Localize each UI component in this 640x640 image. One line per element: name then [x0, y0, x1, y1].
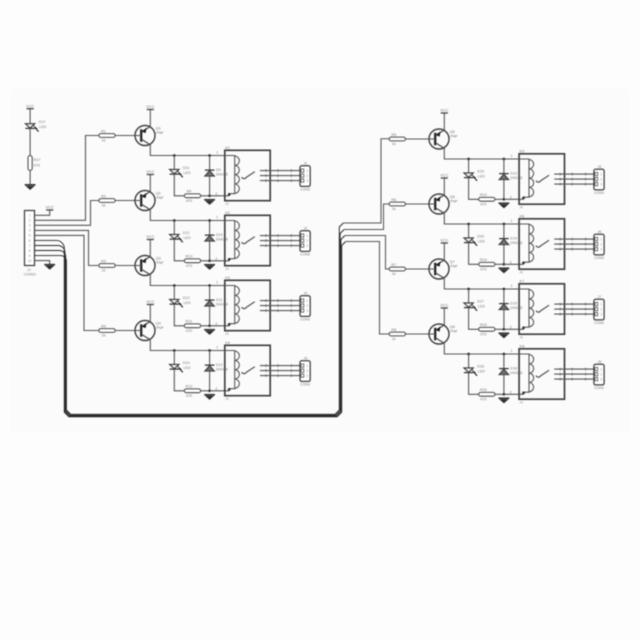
ground ch6 — [499, 268, 510, 273]
ground ch3 — [204, 330, 215, 335]
svg-text:Q4: Q4 — [156, 321, 162, 326]
transistor Q6 — [429, 194, 458, 214]
resistor R15 470 — [479, 323, 495, 336]
wire P1 pin6 bus segment to fan — [35, 240, 346, 416]
svg-text:1: 1 — [511, 219, 513, 223]
svg-text:2: 2 — [306, 369, 308, 373]
node rail-LED junction ch3 — [173, 284, 176, 287]
svg-text:PNP: PNP — [156, 261, 164, 265]
svg-text:470: 470 — [186, 264, 192, 268]
resistor R8 1k — [389, 328, 405, 341]
transistor Q4 — [135, 321, 164, 341]
wire R7 to Q7 base — [405, 268, 429, 270]
resistor R16 470 — [479, 388, 495, 401]
svg-text:10: 10 — [27, 268, 31, 272]
relay K1 coil — [234, 156, 236, 193]
svg-text:470: 470 — [34, 163, 40, 167]
resistor R6 1k — [389, 198, 405, 211]
svg-text:Q5: Q5 — [450, 129, 455, 134]
svg-text:VCC: VCC — [146, 234, 154, 239]
svg-text:R11: R11 — [186, 320, 193, 324]
pin tick marks contact 1 ch7 — [559, 303, 561, 306]
node rail-LED junction ch4 — [173, 349, 176, 352]
svg-text:VCC: VCC — [440, 173, 448, 178]
node rail-diode junction ch1 — [208, 154, 211, 157]
LED D11 — [170, 166, 191, 178]
pin tick marks contact 3 ch7 — [559, 313, 561, 316]
svg-text:LED: LED — [478, 174, 486, 178]
wire relay K8 contact 2 to J8 — [554, 373, 594, 375]
svg-text:R12: R12 — [186, 385, 193, 389]
svg-text:1: 1 — [216, 150, 218, 154]
svg-text:1k: 1k — [392, 337, 396, 341]
wire rail to diode D15 — [503, 289, 505, 304]
svg-text:LED: LED — [478, 369, 486, 373]
svg-text:J5: J5 — [597, 165, 601, 169]
node rail-diode junction ch8 — [503, 353, 506, 356]
power VCC indicator — [26, 103, 34, 108]
wire relay K6 contact 1 to J6 — [554, 238, 594, 240]
wire LED D17 to R17 — [29, 128, 31, 156]
wire fan to channel5 riser — [343, 139, 389, 223]
wire relay K8 contact 1 to J8 — [554, 368, 594, 370]
svg-text:D12: D12 — [216, 363, 223, 367]
wire R8 to Q8 base — [405, 333, 429, 335]
wire R11 to ground rail ch3 — [201, 325, 210, 327]
svg-text:1: 1 — [511, 284, 513, 288]
relay K2 switch — [242, 237, 255, 244]
svg-text:R10: R10 — [186, 255, 193, 259]
LED D12 — [170, 231, 191, 243]
wire R2 to Q2 base — [115, 200, 135, 202]
relay K5 box — [519, 148, 564, 209]
relay K5 coil-bottom junction — [522, 197, 525, 200]
relay K8 coil — [528, 355, 530, 392]
svg-text:1: 1 — [600, 302, 602, 306]
wire Q1 emitter to VCC — [149, 110, 151, 127]
svg-text:1: 1 — [306, 364, 308, 368]
wire R4 to Q4 base — [115, 330, 135, 332]
LED D18 — [464, 364, 485, 376]
relay K8 switch — [536, 370, 549, 377]
wire Q5 emitter to VCC — [443, 113, 445, 130]
svg-text:D14: D14 — [510, 237, 517, 241]
connector J7 — [594, 295, 604, 325]
svg-text:1: 1 — [511, 154, 513, 158]
wire fan to channel7 riser — [345, 236, 389, 270]
wire relay K2 contact 3 to J2 — [260, 245, 300, 247]
svg-text:R15: R15 — [480, 323, 487, 327]
relay K1 coil-bottom junction — [228, 193, 231, 196]
wire diode D13 to ground rail — [503, 180, 505, 200]
pin tick marks contact 3 ch3 — [265, 309, 267, 312]
wire ground rail to relay K8 pin2 — [504, 393, 524, 395]
wire Q7 collector to relay rail — [444, 278, 519, 289]
diode D16 1N4148 — [499, 367, 522, 376]
wire relay K5 contact 1 to J5 — [554, 173, 594, 175]
resistor R11 470 — [184, 320, 200, 333]
svg-text:D12: D12 — [183, 231, 190, 235]
wire relay K6 contact 2 to J6 — [554, 243, 594, 245]
svg-text:Q1: Q1 — [156, 126, 161, 131]
wire relay K8 contact 3 to J8 — [554, 378, 594, 380]
pin tick marks contact 3 ch5 — [559, 183, 561, 186]
svg-text:2: 2 — [600, 242, 602, 246]
node ground-rail junction ch1 — [208, 194, 211, 197]
relay K1 box — [225, 145, 270, 206]
svg-text:1N4148: 1N4148 — [510, 241, 522, 245]
svg-text:1: 1 — [216, 280, 218, 284]
svg-text:K2: K2 — [225, 210, 230, 215]
wire P1 pin7 bus segment to fan — [35, 236, 345, 417]
svg-text:PNP: PNP — [156, 196, 164, 200]
node rail-diode junction ch6 — [503, 223, 506, 226]
pin tick marks contact 1 ch2 — [265, 234, 267, 237]
svg-text:1k: 1k — [101, 139, 105, 143]
svg-text:J3: J3 — [303, 291, 307, 295]
svg-text:PNP: PNP — [450, 264, 458, 268]
relay K3 coil-bottom junction — [228, 323, 231, 326]
relay K3 coil — [234, 286, 236, 323]
connector J6 — [594, 230, 604, 260]
svg-text:R4: R4 — [101, 324, 106, 328]
relay K6 box — [519, 213, 564, 274]
svg-text:PNP: PNP — [450, 329, 458, 333]
node ground-rail junction ch5 — [503, 198, 506, 201]
power VCC Q1 — [146, 104, 154, 109]
resistor R10 470 — [184, 255, 200, 268]
relay K2 coil-bottom junction — [228, 258, 231, 261]
wire rail to LED D18 — [468, 354, 470, 368]
svg-text:CON10: CON10 — [24, 273, 36, 277]
connector J4 — [300, 356, 310, 386]
pin tick marks contact 1 ch3 — [265, 299, 267, 302]
svg-text:CON3: CON3 — [594, 256, 604, 260]
wire LED D18 to R16 — [469, 373, 479, 395]
relay K3 switch — [242, 302, 255, 309]
svg-text:3: 3 — [306, 309, 308, 313]
svg-text:3: 3 — [306, 374, 308, 378]
wire Q2 collector to relay rail — [150, 210, 225, 221]
wire LED D15 to R13 — [469, 178, 479, 200]
wire R10 to ground rail ch2 — [201, 260, 210, 262]
wire rail to LED D15 — [468, 159, 470, 173]
svg-text:Q3: Q3 — [156, 256, 161, 261]
svg-text:3: 3 — [306, 244, 308, 248]
wire relay K2 contact 2 to J2 — [260, 240, 300, 242]
power VCC Q6 — [440, 173, 448, 178]
pin tick marks contact 2 ch7 — [559, 308, 561, 311]
relay K4 coil-bottom junction — [228, 388, 231, 391]
wire Q4 collector to relay rail — [150, 340, 225, 351]
connector J1 — [300, 161, 310, 191]
node rail-LED junction ch8 — [467, 353, 470, 356]
svg-text:Q6: Q6 — [450, 194, 455, 199]
wire R3 to Q3 base — [115, 265, 135, 267]
wire R6 to Q6 base — [405, 203, 429, 205]
svg-text:R9: R9 — [187, 190, 192, 194]
svg-text:D18: D18 — [477, 364, 484, 368]
svg-text:K6: K6 — [520, 213, 525, 218]
node ground-rail junction ch6 — [503, 263, 506, 266]
pin tick marks contact 2 ch3 — [265, 304, 267, 307]
transistor Q5 — [429, 129, 458, 149]
wire P1 pin4 to channel3 — [35, 230, 99, 265]
wire fan to channel8 riser — [346, 242, 390, 335]
relay K7 coil-bottom junction — [522, 327, 525, 330]
svg-text:1k: 1k — [101, 334, 105, 338]
diode D15 1N4148 — [499, 302, 522, 311]
connector J3 — [300, 291, 310, 321]
svg-text:2: 2 — [215, 387, 217, 391]
wire relay K4 contact 3 to J4 — [260, 375, 300, 377]
svg-text:LED: LED — [184, 366, 192, 370]
wire rail to diode D11 — [209, 286, 211, 301]
wire ground rail to relay K2 pin2 — [210, 260, 230, 262]
wire Q5 collector to relay rail — [444, 148, 519, 159]
wire ground rail to relay K1 pin2 — [210, 195, 230, 197]
svg-text:R1: R1 — [101, 129, 106, 133]
svg-text:R6: R6 — [391, 198, 396, 202]
wire diode D15 to ground rail — [503, 310, 505, 330]
svg-text:D11: D11 — [183, 166, 190, 170]
pin tick marks contact 3 ch1 — [265, 179, 267, 182]
wire R5 to Q5 base — [405, 138, 429, 140]
svg-text:VCC: VCC — [440, 303, 448, 308]
svg-text:1N4148: 1N4148 — [216, 303, 228, 307]
power VCC Q2 — [146, 169, 154, 174]
svg-text:4: 4 — [29, 229, 31, 233]
resistor R17 470 — [28, 156, 40, 171]
relay K8 coil-bottom junction — [522, 392, 525, 395]
wire R14 to ground rail ch6 — [495, 263, 504, 265]
svg-text:CON3: CON3 — [300, 253, 310, 257]
relay K6 coil-bottom junction — [522, 262, 525, 265]
wire relay K5 contact 2 to J5 — [554, 178, 594, 180]
svg-text:R5: R5 — [391, 133, 396, 137]
power VCC header — [46, 205, 54, 210]
svg-text:LED: LED — [184, 301, 192, 305]
pin tick marks contact 2 ch6 — [559, 243, 561, 246]
ground ch4 — [204, 395, 215, 400]
relay K7 box — [519, 278, 564, 339]
power VCC Q5 — [440, 108, 448, 113]
svg-text:R3: R3 — [101, 259, 106, 263]
node rail-diode junction ch7 — [503, 288, 506, 291]
node rail-LED junction ch1 — [173, 154, 176, 157]
wire R16 to ground rail ch8 — [495, 393, 504, 395]
svg-text:2: 2 — [215, 257, 217, 261]
svg-text:K5: K5 — [520, 148, 525, 153]
pin tick marks contact 3 ch2 — [265, 244, 267, 247]
resistor R3 1k — [99, 259, 115, 272]
wire relay K6 contact 3 to J6 — [554, 248, 594, 250]
svg-text:470: 470 — [186, 329, 192, 333]
wire rail to diode D16 — [503, 354, 505, 369]
svg-text:J8: J8 — [597, 360, 601, 364]
LED D15 — [464, 169, 485, 181]
svg-text:2: 2 — [510, 195, 512, 199]
wire relay K1 contact 3 to J1 — [260, 180, 300, 182]
wire rail to LED D12 — [173, 221, 175, 235]
svg-text:K1: K1 — [225, 145, 230, 150]
svg-text:VCC: VCC — [146, 169, 154, 174]
relay K1 switch — [242, 172, 255, 179]
node rail-LED junction ch7 — [467, 288, 470, 291]
wire P1 pin5 to channel4 — [35, 235, 99, 330]
pin tick marks contact 3 ch6 — [559, 248, 561, 251]
svg-text:1: 1 — [306, 299, 308, 303]
pin tick marks contact 1 ch5 — [559, 173, 561, 176]
LED D14 — [170, 361, 191, 373]
svg-text:1: 1 — [600, 367, 602, 371]
ground ch5 — [499, 203, 510, 208]
wire P1 pin3 to channel2 — [35, 201, 99, 226]
svg-text:R13: R13 — [480, 193, 487, 197]
wire P1 pin1 to VCC — [35, 210, 50, 215]
relay K4 switch — [242, 367, 255, 374]
svg-text:J2: J2 — [303, 226, 307, 230]
wire relay K5 contact 3 to J5 — [554, 183, 594, 185]
wire ground rail to relay K3 pin2 — [210, 325, 230, 327]
svg-text:1: 1 — [600, 172, 602, 176]
node rail-diode junction ch5 — [503, 158, 506, 161]
node rail-LED junction ch6 — [467, 223, 470, 226]
svg-text:PNP: PNP — [450, 199, 458, 203]
relay K7 switch — [536, 305, 549, 312]
wire Q8 collector to relay rail — [444, 343, 519, 354]
pin tick marks contact 2 ch1 — [265, 174, 267, 177]
relay K3 box — [225, 275, 270, 336]
wire Q8 emitter to VCC — [443, 308, 445, 325]
svg-text:2: 2 — [306, 239, 308, 243]
svg-text:PNP: PNP — [156, 326, 164, 330]
node rail-LED junction ch5 — [467, 158, 470, 161]
svg-text:J6: J6 — [597, 230, 601, 234]
svg-text:1: 1 — [511, 349, 513, 353]
wire relay K1 contact 1 to J1 — [260, 170, 300, 172]
wire P1 pin2 to channel1 — [35, 136, 99, 221]
svg-text:J1: J1 — [303, 161, 307, 165]
connector J8 — [594, 360, 604, 390]
svg-text:VCC: VCC — [46, 205, 54, 210]
svg-text:K8: K8 — [520, 343, 525, 348]
wire Q3 emitter to VCC — [149, 240, 151, 257]
pin tick marks contact 1 ch4 — [265, 364, 267, 367]
resistor R13 470 — [479, 193, 495, 206]
svg-text:3: 3 — [29, 224, 31, 228]
pin tick marks contact 1 ch6 — [559, 238, 561, 241]
LED D16 — [464, 234, 485, 246]
wire ground rail to relay K5 pin2 — [504, 198, 524, 200]
svg-text:1N4148: 1N4148 — [216, 173, 228, 177]
svg-text:LED: LED — [478, 304, 486, 308]
wire ground rail to relay K7 pin2 — [504, 328, 524, 330]
wire relay K4 contact 2 to J4 — [260, 370, 300, 372]
svg-text:D16: D16 — [477, 234, 484, 238]
svg-text:8: 8 — [29, 249, 31, 253]
svg-text:D14: D14 — [183, 361, 190, 365]
ground indicator — [25, 185, 36, 190]
svg-text:VCC: VCC — [146, 299, 154, 304]
diode D13 1N4148 — [499, 172, 522, 181]
wire diode D11 to ground rail — [209, 306, 211, 326]
svg-text:1N4148: 1N4148 — [510, 176, 522, 180]
transistor Q2 — [135, 191, 164, 211]
svg-text:CON3: CON3 — [594, 191, 604, 195]
svg-text:1: 1 — [306, 169, 308, 173]
svg-text:CON3: CON3 — [594, 321, 604, 325]
pin tick marks contact 2 ch8 — [559, 373, 561, 376]
svg-text:2: 2 — [600, 307, 602, 311]
wire LED D14 to R12 — [174, 369, 184, 391]
svg-text:R7: R7 — [391, 263, 396, 267]
svg-text:2: 2 — [306, 174, 308, 178]
svg-text:D13: D13 — [510, 172, 517, 176]
pin tick marks contact 2 ch2 — [265, 239, 267, 242]
svg-text:1: 1 — [216, 345, 218, 349]
resistor R2 1k — [99, 194, 115, 207]
wire P1 pin9 bus segment to fan — [35, 223, 344, 414]
wire relay K3 contact 1 to J3 — [260, 300, 300, 302]
ground ch2 — [204, 265, 215, 270]
wire relay K3 contact 3 to J3 — [260, 310, 300, 312]
node rail-diode junction ch4 — [208, 349, 211, 352]
pin tick marks contact 2 ch4 — [265, 369, 267, 372]
svg-text:2: 2 — [29, 219, 31, 223]
svg-text:Q2: Q2 — [156, 191, 161, 196]
svg-text:D16: D16 — [510, 367, 517, 371]
wire Q6 emitter to VCC — [443, 178, 445, 195]
ground ch7 — [499, 333, 510, 338]
svg-text:R8: R8 — [391, 328, 396, 332]
svg-text:2: 2 — [600, 177, 602, 181]
svg-text:D17: D17 — [477, 299, 484, 303]
wire rail to diode D13 — [503, 159, 505, 174]
node ground-rail junction ch8 — [503, 393, 506, 396]
wire Q6 collector to relay rail — [444, 213, 519, 224]
svg-text:Q7: Q7 — [450, 259, 455, 264]
svg-text:1N4148: 1N4148 — [216, 368, 228, 372]
relay K5 switch — [536, 175, 549, 182]
svg-text:D17: D17 — [39, 120, 46, 124]
wire rail to diode D9 — [209, 156, 211, 171]
diode D11 1N4148 — [205, 298, 228, 307]
wire relay K1 contact 2 to J1 — [260, 175, 300, 177]
svg-text:CON3: CON3 — [300, 188, 310, 192]
wire relay K7 contact 3 to J7 — [554, 313, 594, 315]
svg-text:D11: D11 — [216, 298, 223, 302]
ground ch1 — [204, 200, 215, 205]
node rail-diode junction ch3 — [208, 284, 211, 287]
relay K6 coil — [528, 225, 530, 262]
transistor Q3 — [135, 256, 164, 276]
svg-text:7: 7 — [29, 244, 31, 248]
connector J2 — [300, 226, 310, 256]
svg-text:470: 470 — [480, 268, 486, 272]
wire LED D11 to R9 — [174, 174, 184, 196]
LED D17 — [25, 120, 46, 132]
svg-text:1: 1 — [600, 237, 602, 241]
wire diode D16 to ground rail — [503, 375, 505, 395]
svg-text:CON3: CON3 — [594, 386, 604, 390]
ground ch8 — [499, 398, 510, 403]
diode D14 1N4148 — [499, 237, 522, 246]
wire relay K4 contact 1 to J4 — [260, 365, 300, 367]
svg-text:PNP: PNP — [450, 134, 458, 138]
svg-text:1N4148: 1N4148 — [216, 238, 228, 242]
power VCC Q8 — [440, 303, 448, 308]
